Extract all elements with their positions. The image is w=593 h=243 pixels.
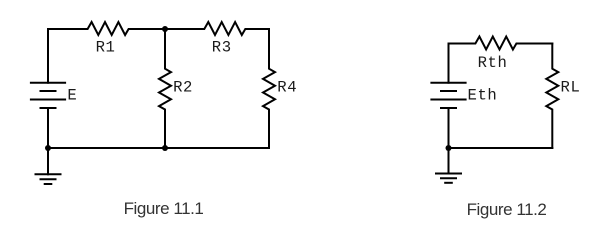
svg-text:Figure 11.2: Figure 11.2 (467, 200, 547, 219)
svg-text:RL: RL (561, 78, 581, 96)
svg-text:R3: R3 (212, 39, 232, 57)
svg-text:R2: R2 (173, 78, 193, 96)
svg-text:Eth: Eth (468, 87, 498, 105)
svg-text:Rth: Rth (478, 54, 508, 72)
svg-text:R4: R4 (277, 78, 297, 96)
svg-text:R1: R1 (96, 39, 116, 57)
svg-text:E: E (67, 86, 77, 104)
svg-text:Figure 11.1: Figure 11.1 (124, 199, 204, 218)
